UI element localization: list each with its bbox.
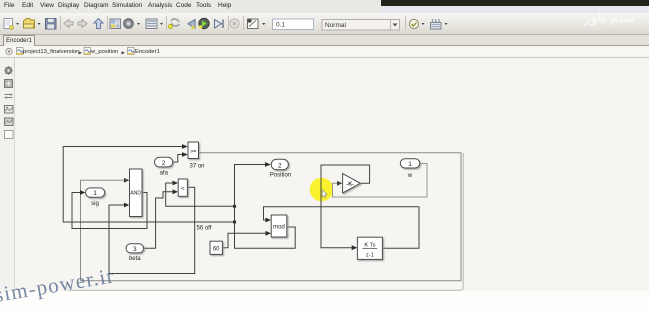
svg-text:w: w (407, 173, 413, 179)
outport 1 sig (86, 188, 105, 197)
menu bar (0, 0, 649, 13)
wire: afa inport to relational >= input 2 (173, 152, 188, 162)
label 37 on (190, 164, 205, 170)
svg-text:<: < (181, 186, 185, 192)
svg-text:3: 3 (133, 246, 137, 253)
relational operator block < (178, 179, 187, 196)
separator (228, 16, 230, 30)
step forward icon (215, 20, 224, 29)
label sig (91, 201, 99, 207)
inport 3 beta (126, 244, 144, 253)
svg-text:sig: sig (91, 201, 99, 207)
wire: AND output to sig outport (72, 190, 147, 228)
wire: junction to relational >= input 1 (63, 144, 234, 222)
watermark top right (584, 9, 635, 26)
svg-text:>=: >= (190, 149, 196, 155)
tab row (0, 35, 649, 46)
watermark bottom left (0, 263, 116, 308)
open folder icon (24, 19, 41, 29)
toolbar (0, 13, 649, 35)
save icon (46, 19, 57, 30)
inport 2 afa (155, 157, 173, 167)
back arrow (64, 20, 73, 28)
label w (407, 173, 413, 179)
new file icon (4, 19, 19, 30)
separator (166, 16, 168, 30)
mode combo box (322, 20, 400, 31)
discrete integrator block KTs/z-1 (357, 237, 382, 259)
svg-text:AND: AND (130, 191, 141, 197)
svg-text:afa: afa (160, 170, 169, 176)
wire: gain output to KTs input (321, 165, 370, 250)
relational operator block >= (37 on) (188, 142, 199, 159)
up arrow (94, 19, 103, 29)
stop icon (disabled) (230, 19, 239, 28)
mouse cursor (322, 190, 327, 198)
check circle icon (409, 19, 424, 28)
forward arrow (78, 20, 87, 28)
build icon (431, 19, 448, 29)
step back icon (188, 20, 195, 30)
svg-text:1: 1 (93, 190, 97, 197)
wire: KTs output loop back to mod input 1 (264, 207, 420, 249)
wire: relational >= output feedback loop to AND input 1 (81, 153, 462, 281)
scope/data icon (248, 19, 266, 29)
gear icon (124, 19, 140, 29)
svg-text:2: 2 (278, 162, 282, 169)
svg-text:mod: mod (273, 225, 285, 231)
svg-text:z-1: z-1 (366, 252, 374, 258)
svg-text:60: 60 (213, 246, 220, 252)
wire: w inport to gain input (grey) (333, 164, 428, 198)
label afa (160, 170, 169, 176)
sim stop time field (273, 19, 314, 30)
svg-text:56 off: 56 off (197, 226, 212, 232)
constant block 60 (210, 241, 222, 254)
junction node (to >= loop) (233, 220, 236, 223)
svg-text:Normal: Normal (325, 22, 347, 29)
svg-text:Position: Position (270, 173, 291, 179)
wire: mod output up to Position outport (235, 162, 296, 248)
separator (243, 16, 245, 30)
dark strip top right (381, 0, 649, 6)
wire: junction to relational < input 1 (166, 181, 235, 207)
AND logical operator block (130, 169, 143, 217)
boundary box (right and bottom edge of model area) (68, 153, 463, 290)
separator (60, 16, 62, 30)
svg-text:K Ts: K Ts (364, 242, 375, 248)
wire: constant 60 to mod input 2 (223, 231, 272, 248)
refresh icon (168, 19, 179, 29)
label 56 off (197, 226, 212, 232)
gain block -K- (343, 174, 361, 193)
yellow cursor highlight circle (310, 178, 334, 202)
svg-text:37 on: 37 on (190, 164, 205, 170)
model explorer icon (146, 19, 163, 29)
junction node (to < loop) (233, 205, 236, 208)
separator (405, 16, 407, 30)
canvas (0, 58, 649, 291)
svg-text:1: 1 (408, 161, 412, 168)
mod function block (271, 215, 287, 237)
run/play icon (199, 18, 210, 29)
svg-text:2: 2 (162, 160, 166, 167)
outport 2 Position (271, 159, 288, 169)
wire: relational < output to AND input 2 (109, 187, 195, 273)
inport 1 w (400, 159, 420, 168)
wire: beta inport to relational < input 2 (144, 189, 178, 248)
svg-text:-K-: -K- (346, 182, 354, 188)
label beta (129, 256, 141, 262)
svg-text:beta: beta (129, 256, 141, 262)
library browser icon (110, 19, 121, 29)
label Position (270, 173, 291, 179)
breadcrumb (0, 46, 649, 58)
separator (107, 16, 109, 30)
svg-text:0.1: 0.1 (276, 22, 285, 29)
